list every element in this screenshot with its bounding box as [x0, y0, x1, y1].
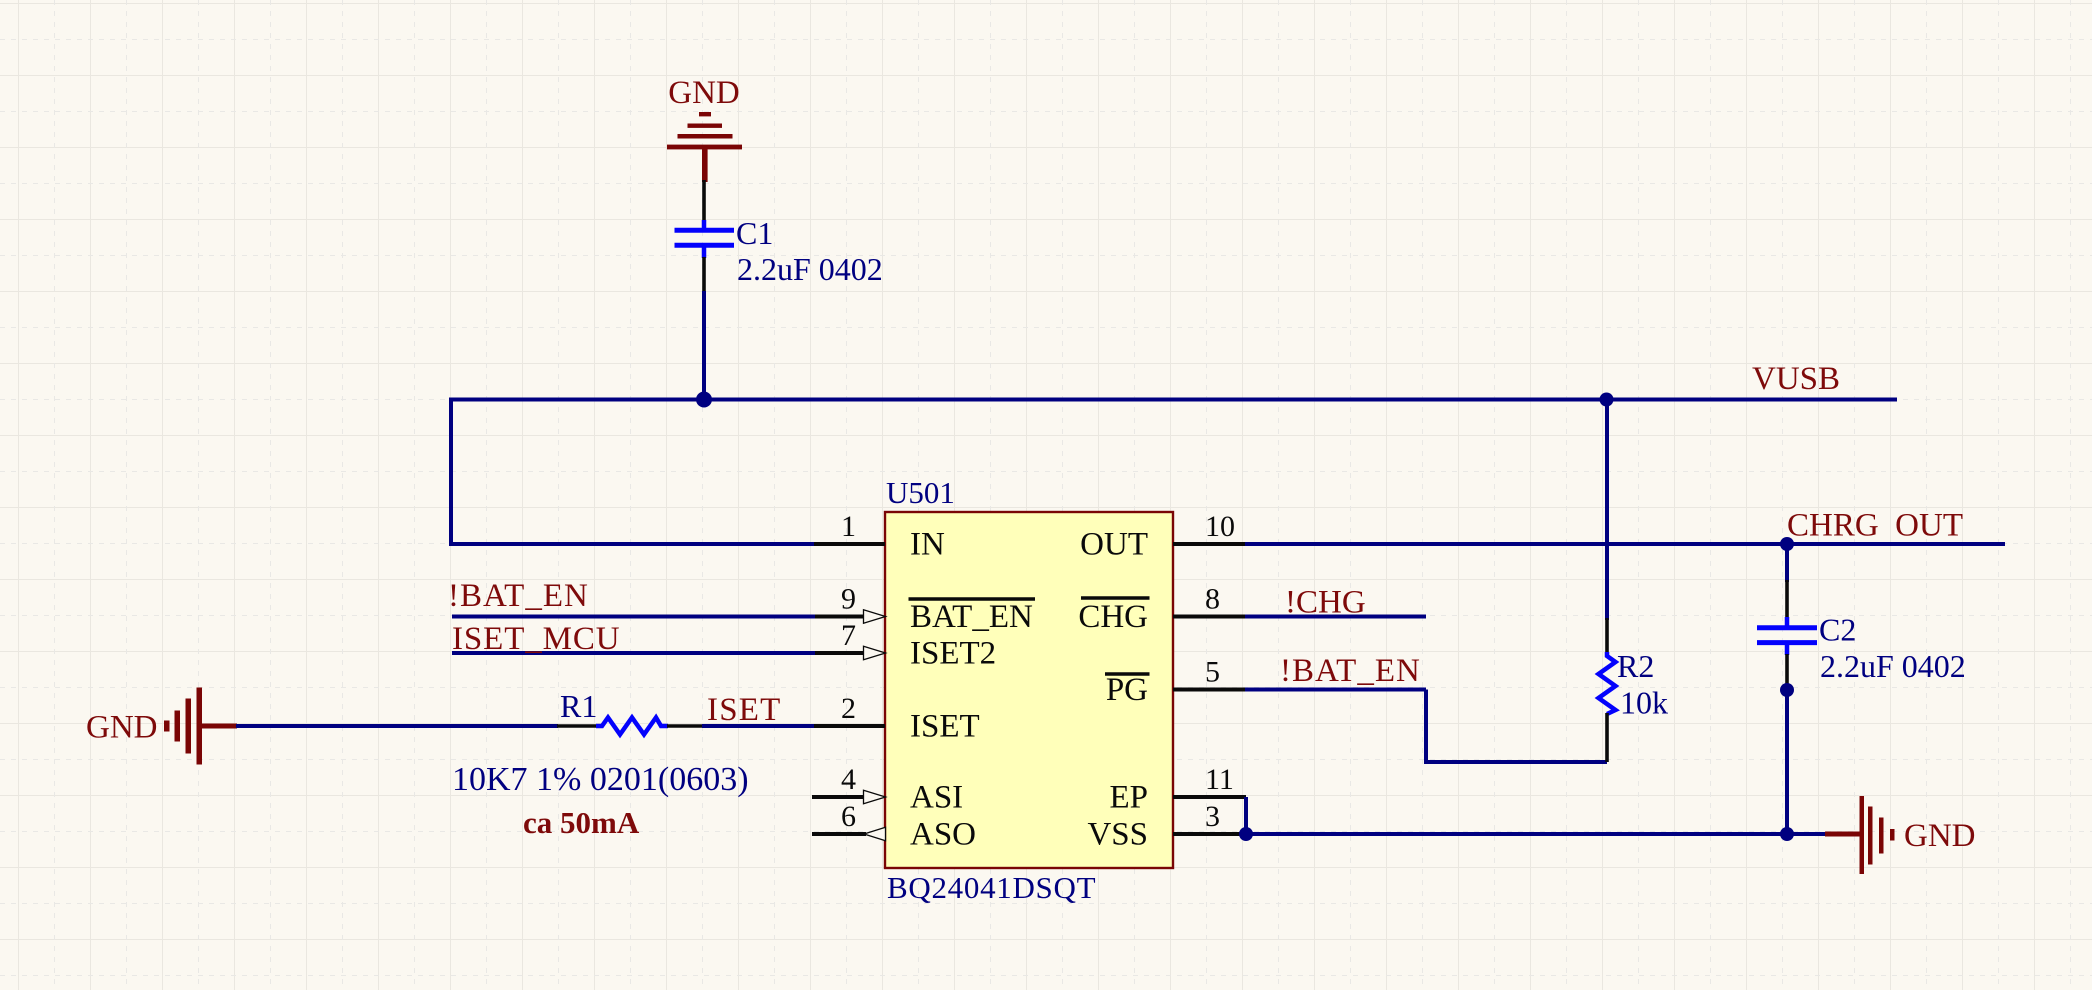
svg-text:2.2uF 0402: 2.2uF 0402	[1820, 648, 1966, 684]
wire ISET_MCU to pin 7	[452, 651, 815, 655]
svg-text:ISET_MCU: ISET_MCU	[452, 621, 621, 657]
U501 pin 9 (BAT_EN, active low, input)	[815, 583, 1035, 636]
svg-text:2: 2	[841, 692, 856, 725]
svg-text:!BAT_EN: !BAT_EN	[1280, 653, 1421, 689]
svg-text:CHRG OUT: CHRG OUT	[1787, 508, 1963, 544]
svg-text:VUSB: VUSB	[1752, 361, 1840, 397]
svg-text:ISET2: ISET2	[910, 636, 996, 672]
power port GND (right)	[1825, 796, 1976, 874]
capacitor C1	[675, 180, 735, 293]
wire C2 to VSS net	[1785, 688, 1789, 834]
U501 pin 1 (IN)	[814, 510, 945, 563]
wire pin 5 to !BAT_EN	[1245, 688, 1426, 692]
junction VSS/C2	[1780, 827, 1794, 841]
wire OUT to CHRG_OUT	[1245, 542, 2005, 546]
wire !BAT_EN step to R2	[1426, 690, 1607, 763]
svg-text:OUT: OUT	[1080, 527, 1148, 563]
svg-text:VSS: VSS	[1087, 817, 1148, 853]
svg-text:GND: GND	[668, 75, 740, 111]
U501 pin 8 (CHG, active low)	[1078, 583, 1245, 636]
junction C2/CHRG_OUT	[1780, 537, 1794, 551]
svg-text:6: 6	[841, 800, 856, 833]
svg-text:R1: R1	[560, 688, 597, 724]
svg-text:11: 11	[1205, 763, 1234, 796]
wire R1 to pin 2	[702, 724, 814, 728]
svg-text:9: 9	[841, 583, 856, 616]
U501 pin 7 (ISET2, input)	[815, 619, 996, 672]
U501 pin 11 (EP)	[1109, 763, 1246, 816]
svg-text:CHG: CHG	[1078, 599, 1148, 635]
power port GND (top)	[667, 75, 742, 182]
wire pin 8 to !CHG	[1245, 615, 1426, 619]
svg-text:1: 1	[841, 510, 856, 543]
wire VSS to GND (right)	[1246, 832, 1825, 836]
wire GND to R1	[236, 724, 558, 728]
resistor R1	[557, 718, 703, 735]
svg-text:3: 3	[1205, 800, 1220, 833]
wire VUSB bus	[451, 398, 1897, 402]
U501 pin 3 (VSS)	[1087, 800, 1246, 853]
svg-text:BQ24041DSQT: BQ24041DSQT	[887, 870, 1096, 905]
svg-text:!BAT_EN: !BAT_EN	[448, 578, 589, 614]
power port GND (left)	[86, 688, 237, 765]
capacitor C2	[1757, 580, 1817, 688]
wire VUSB left drop	[451, 398, 814, 545]
junction C1/VUSB	[696, 392, 712, 408]
junction C2 bottom	[1780, 683, 1794, 697]
junction EP/VSS	[1239, 827, 1253, 841]
svg-text:C1: C1	[736, 215, 773, 251]
wire !BAT_EN to pin 9	[452, 615, 815, 619]
junction R2/VUSB	[1600, 393, 1614, 407]
svg-text:GND: GND	[86, 710, 158, 746]
wire CHRG_OUT to C2	[1785, 544, 1789, 582]
svg-text:GND: GND	[1904, 818, 1976, 854]
svg-text:2.2uF 0402: 2.2uF 0402	[737, 251, 883, 287]
svg-text:ISET: ISET	[910, 709, 980, 745]
svg-text:4: 4	[841, 763, 856, 796]
svg-text:C2: C2	[1819, 612, 1856, 648]
svg-text:U501: U501	[886, 475, 955, 510]
svg-text:ISET: ISET	[707, 692, 781, 728]
svg-text:ASO: ASO	[910, 817, 976, 853]
U501 pin 10 (OUT)	[1080, 510, 1245, 563]
svg-text:PG: PG	[1106, 672, 1148, 708]
svg-text:R2: R2	[1617, 648, 1654, 684]
svg-text:10: 10	[1205, 510, 1235, 543]
U501 pin 2 (ISET)	[814, 692, 980, 745]
U501 pin 5 (PG, active low)	[1105, 656, 1245, 709]
svg-text:7: 7	[841, 619, 856, 652]
U501 pin 6 (ASO, output)	[812, 800, 976, 853]
svg-text:EP: EP	[1109, 780, 1148, 816]
svg-text:10K7 1% 0201(0603): 10K7 1% 0201(0603)	[452, 761, 749, 798]
svg-text:!CHG: !CHG	[1285, 585, 1366, 621]
wire VUSB to R2	[1605, 400, 1609, 621]
op-amp/IC U501 body	[885, 512, 1173, 868]
U501 pin 4 (ASI, input)	[812, 763, 963, 816]
svg-text:ca 50mA: ca 50mA	[523, 805, 640, 840]
wire EP to VSS	[1244, 797, 1248, 834]
svg-text:IN: IN	[910, 527, 945, 563]
wire C1 to VUSB bus	[702, 291, 706, 400]
svg-text:10k: 10k	[1620, 685, 1668, 721]
svg-text:ASI: ASI	[910, 780, 963, 816]
resistor R2	[1599, 618, 1616, 762]
svg-text:8: 8	[1205, 583, 1220, 616]
svg-text:5: 5	[1205, 656, 1220, 689]
svg-text:BAT_EN: BAT_EN	[910, 599, 1033, 635]
